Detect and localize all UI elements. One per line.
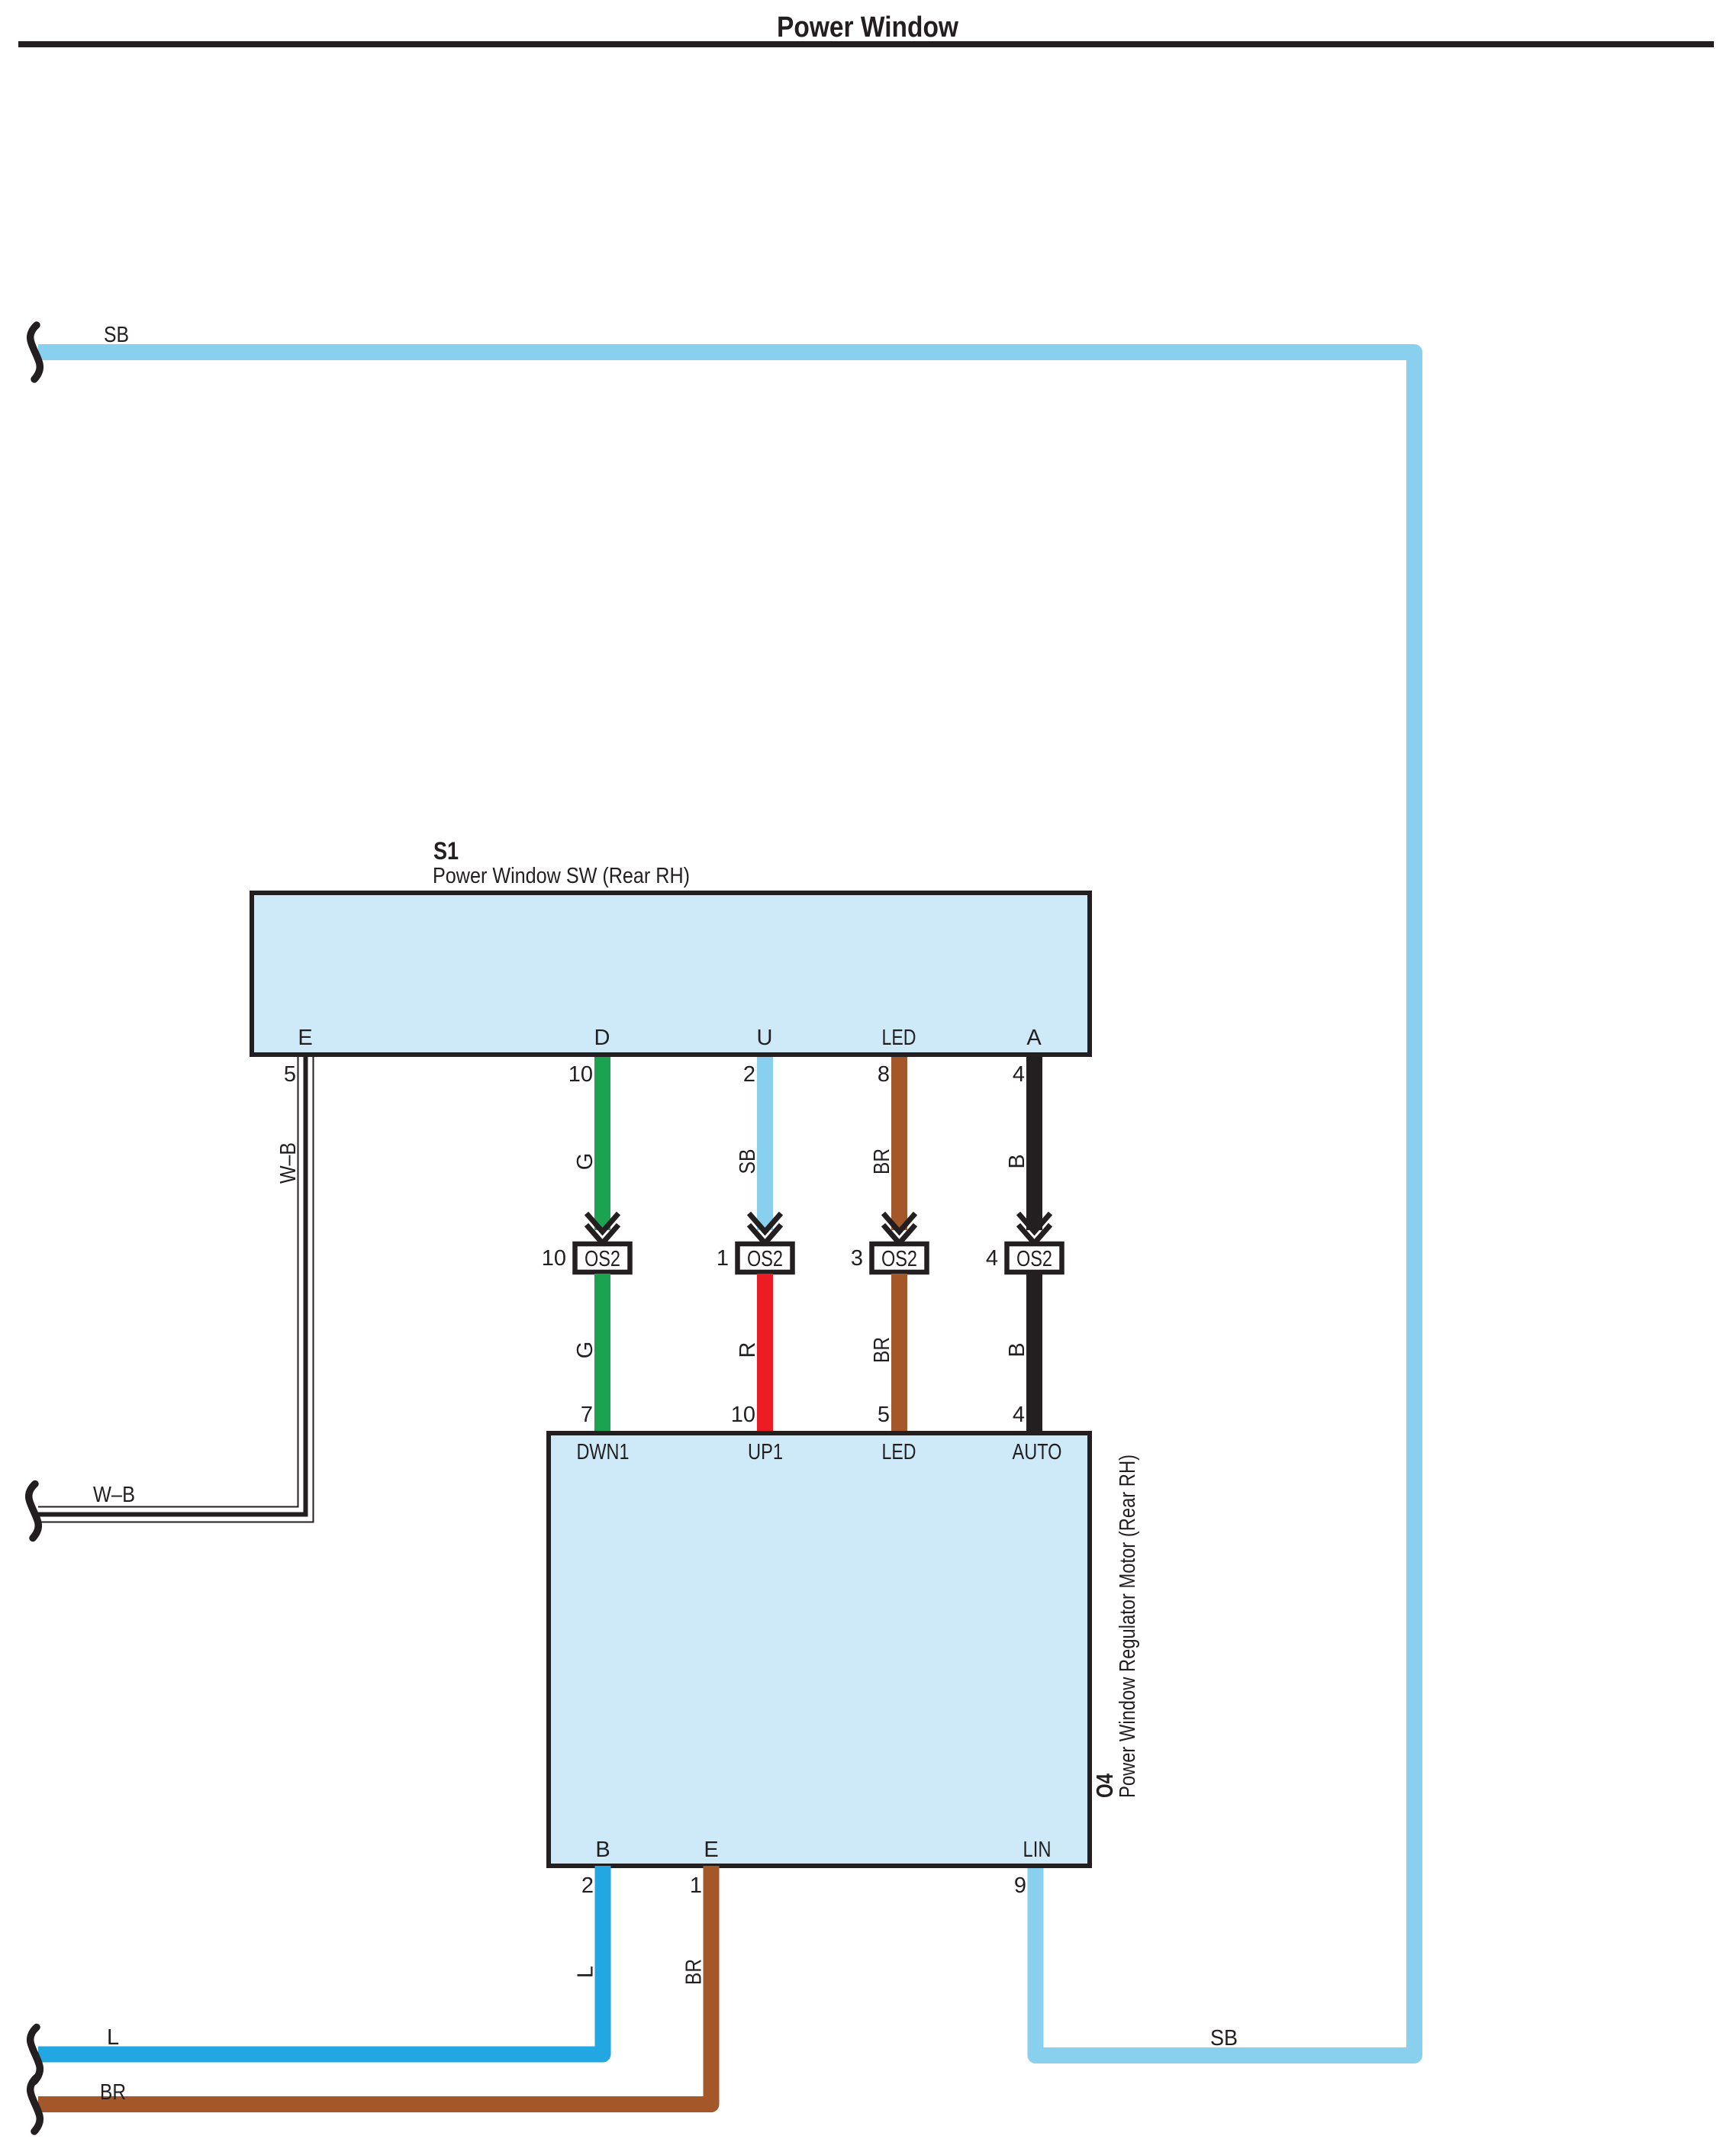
svg-text:BR: BR: [870, 1337, 894, 1363]
svg-text:B: B: [595, 1838, 610, 1862]
connector OS2 (col LED): [872, 1244, 927, 1272]
break symbol at W-B wire left end: [29, 1484, 39, 1538]
connector OS2 (col D): [575, 1244, 630, 1272]
svg-text:SB: SB: [104, 323, 129, 347]
svg-text:2: 2: [581, 1873, 594, 1898]
svg-text:W–B: W–B: [93, 1483, 135, 1507]
wire W-B from S1 pin E to left edge: [38, 1057, 314, 1522]
svg-text:LIN: LIN: [1023, 1838, 1052, 1862]
connector arrow above OS2 (col U): [749, 1213, 781, 1243]
connector OS2 (col A): [1007, 1244, 1062, 1272]
svg-text:1: 1: [717, 1246, 729, 1271]
svg-text:G: G: [573, 1153, 597, 1171]
component O4 Power Window Regulator Motor (Rear RH): [549, 1433, 1090, 1866]
svg-text:4: 4: [1013, 1062, 1025, 1087]
svg-text:UP1: UP1: [748, 1440, 783, 1464]
svg-text:B: B: [1005, 1342, 1029, 1357]
svg-text:5: 5: [284, 1062, 296, 1087]
svg-text:B: B: [1005, 1154, 1029, 1168]
svg-text:3: 3: [851, 1246, 863, 1271]
svg-text:LED: LED: [882, 1026, 916, 1050]
svg-text:DWN1: DWN1: [577, 1440, 630, 1464]
connector arrow above OS2 (col LED): [884, 1213, 916, 1243]
connector arrow above OS2 (col A): [1019, 1213, 1051, 1243]
svg-text:SB: SB: [736, 1149, 760, 1174]
wire SB: top horizontal, right vertical, bottom horizontal to LIN pin 9: [38, 353, 1415, 2056]
svg-text:E: E: [298, 1026, 312, 1050]
svg-text:E: E: [704, 1838, 718, 1862]
svg-text:O4: O4: [1091, 1773, 1118, 1798]
svg-text:OS2: OS2: [585, 1247, 620, 1271]
svg-text:L: L: [574, 1966, 598, 1978]
svg-text:4: 4: [1013, 1403, 1025, 1427]
svg-text:5: 5: [878, 1403, 890, 1427]
svg-text:R: R: [736, 1342, 760, 1358]
svg-text:D: D: [594, 1026, 610, 1050]
svg-text:BR: BR: [100, 2080, 126, 2105]
svg-text:7: 7: [581, 1403, 593, 1427]
svg-text:S1: S1: [433, 837, 459, 865]
svg-text:10: 10: [731, 1403, 755, 1427]
svg-text:Power Window: Power Window: [777, 11, 958, 43]
svg-text:2: 2: [743, 1062, 755, 1087]
component S1 Power Window SW (Rear RH): [252, 837, 1090, 1055]
svg-text:1: 1: [690, 1873, 702, 1898]
wire SB from S1 pin U to OS2: [757, 1057, 773, 1230]
svg-text:Power Window Regulator Motor (: Power Window Regulator Motor (Rear RH): [1116, 1455, 1140, 1798]
wire G from OS2 to O4 pin DWN1: [594, 1274, 610, 1433]
svg-text:W–B: W–B: [276, 1142, 301, 1184]
svg-text:10: 10: [542, 1246, 566, 1271]
wire B from OS2 to O4 pin AUTO: [1026, 1274, 1042, 1433]
svg-text:AUTO: AUTO: [1013, 1440, 1062, 1464]
svg-text:4: 4: [986, 1246, 998, 1271]
svg-text:LED: LED: [882, 1440, 916, 1464]
svg-text:A: A: [1026, 1026, 1042, 1050]
svg-text:BR: BR: [682, 1959, 707, 1985]
title rule: [18, 41, 1714, 47]
svg-text:9: 9: [1014, 1873, 1026, 1898]
break symbol at L wire left end: [31, 2028, 40, 2082]
wire BR from O4 pin E to left edge: [38, 1866, 711, 2105]
svg-text:10: 10: [568, 1062, 593, 1087]
svg-text:SB: SB: [1210, 2026, 1238, 2051]
wire R from OS2 to O4 pin UP1: [757, 1274, 773, 1433]
wire G from S1 pin D to OS2: [594, 1057, 610, 1230]
wire B from S1 pin A to OS2: [1026, 1057, 1042, 1230]
svg-text:L: L: [107, 2025, 119, 2050]
connector arrow above OS2 (col D): [587, 1213, 619, 1243]
break symbol at BR wire left end: [31, 2077, 40, 2131]
connector OS2 (col U): [738, 1244, 793, 1272]
wire BR from S1 pin LED to OS2: [891, 1057, 907, 1230]
wire BR from OS2 to O4 pin LED: [891, 1274, 907, 1433]
svg-text:G: G: [573, 1342, 597, 1359]
svg-text:Power Window SW (Rear RH): Power Window SW (Rear RH): [433, 864, 690, 888]
wire L from O4 pin B to left edge: [38, 1866, 603, 2054]
svg-text:8: 8: [878, 1062, 890, 1087]
break symbol at SB wire left end: [31, 325, 40, 379]
svg-text:U: U: [757, 1026, 773, 1050]
svg-text:BR: BR: [870, 1148, 894, 1174]
